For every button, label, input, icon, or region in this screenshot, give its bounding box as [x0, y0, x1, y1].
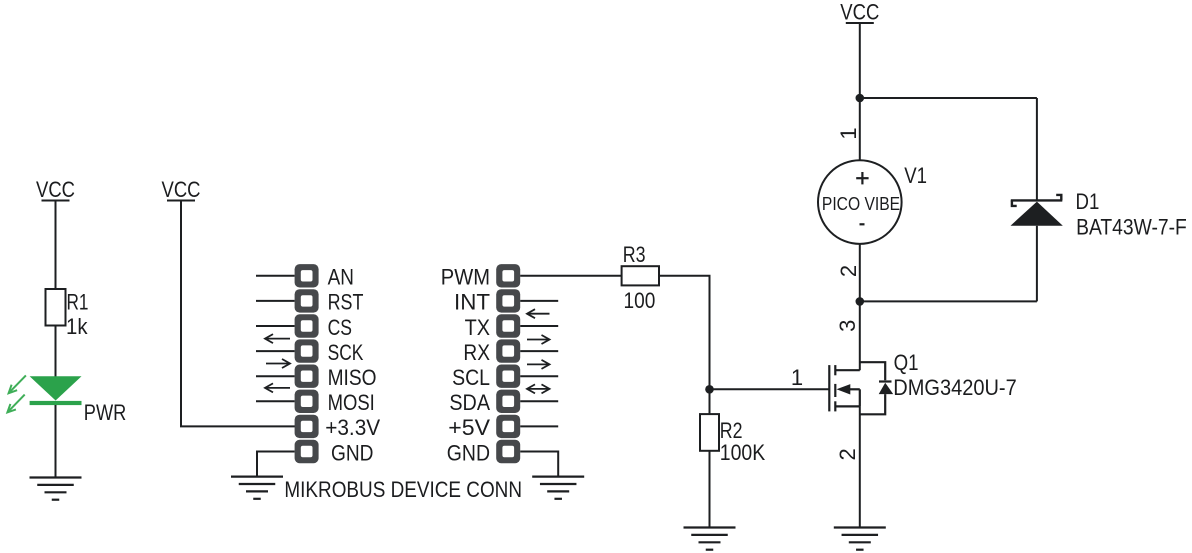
junction gate node	[705, 385, 714, 394]
connector pin 7 (+3.3V) left header	[295, 415, 319, 438]
svg-text:R3: R3	[623, 242, 646, 267]
connector pin 6 (SDA) right header	[496, 390, 520, 413]
svg-text:V1: V1	[904, 163, 927, 188]
svg-text:CS: CS	[328, 315, 352, 340]
svg-text:PWM: PWM	[441, 265, 490, 290]
svg-text:2: 2	[836, 265, 861, 277]
svg-text:MIKROBUS DEVICE CONN: MIKROBUS DEVICE CONN	[284, 477, 522, 502]
svg-text:R1: R1	[67, 290, 89, 315]
wire GND pin to ground (right)	[520, 452, 558, 477]
motor V1 (PICO VIBE)	[818, 160, 902, 244]
svg-text:MISO: MISO	[328, 365, 377, 390]
svg-text:3: 3	[835, 320, 860, 332]
wire D1 bottom to node	[860, 300, 1037, 302]
connector pin 8 (GND) right header	[496, 440, 520, 463]
wire MOSI stub	[256, 400, 295, 402]
svg-text:2: 2	[835, 448, 860, 460]
LED PWR (green power indicator)	[7, 375, 81, 412]
ground (Q1 source)	[834, 528, 886, 550]
ground (LED branch)	[30, 478, 82, 500]
wire node to V1 pin 1	[859, 98, 861, 160]
svg-text:PICO VIBE: PICO VIBE	[822, 194, 900, 214]
resistor R2	[700, 414, 719, 451]
wire gate node to R2	[709, 389, 711, 414]
wire INT stub	[520, 300, 558, 302]
wire MISO stub	[256, 375, 295, 377]
wire node to D1 top	[860, 97, 1037, 99]
wire R2 to ground	[709, 451, 711, 528]
wire PWM to R3	[520, 275, 621, 277]
arrow MOSI direction (input)	[265, 383, 290, 392]
svg-text:SDA: SDA	[449, 390, 490, 415]
svg-text:1: 1	[791, 365, 803, 390]
svg-text:RX: RX	[463, 340, 490, 365]
ground (left header GND)	[231, 477, 283, 499]
svg-text:PWR: PWR	[84, 400, 127, 425]
ground (right header GND)	[532, 477, 584, 499]
svg-text:100: 100	[624, 288, 656, 313]
svg-text:100K: 100K	[720, 440, 766, 465]
svg-text:+3.3V: +3.3V	[325, 415, 380, 440]
svg-text:1k: 1k	[66, 314, 88, 339]
arrow INT direction (input)	[527, 309, 550, 318]
svg-text:TX: TX	[465, 315, 491, 340]
transistor Q1 (N-MOSFET)	[829, 362, 893, 414]
wire SDA stub	[520, 400, 558, 402]
svg-text:SCK: SCK	[328, 340, 364, 365]
wire SCK stub	[256, 350, 295, 352]
connector pin 3 (CS) left header	[295, 314, 319, 337]
wire RX stub	[520, 350, 558, 352]
connector pin 8 (GND) left header	[295, 440, 319, 463]
svg-text:GND: GND	[331, 440, 374, 465]
arrow TX direction (output)	[527, 335, 550, 344]
wire +5V stub	[520, 425, 558, 427]
svg-text:1: 1	[836, 127, 861, 139]
svg-text:VCC: VCC	[36, 177, 75, 202]
junction V1 drain node top	[856, 94, 865, 103]
wire R1 to LED	[55, 326, 57, 378]
connector pin 1 (PWM) right header	[496, 264, 520, 287]
connector pin 4 (RX) right header	[496, 339, 520, 362]
svg-text:MOSI: MOSI	[328, 390, 375, 415]
wire RST stub	[256, 300, 295, 302]
wire gate node to Q1 gate	[710, 388, 830, 390]
svg-text:SCL: SCL	[452, 365, 490, 390]
connector pin 2 (INT) right header	[496, 289, 520, 312]
svg-text:D1: D1	[1076, 189, 1100, 214]
svg-text:GND: GND	[447, 440, 490, 465]
schottky diode D1	[1011, 195, 1063, 226]
svg-text:Q1: Q1	[894, 350, 919, 375]
wire VCC to R1	[55, 201, 57, 290]
wire Q1 source to ground	[859, 406, 861, 527]
svg-text:INT: INT	[454, 290, 490, 315]
power flag VCC (motor supply)	[840, 0, 879, 25]
wire CS stub	[256, 325, 295, 327]
wire SCL stub	[520, 375, 558, 377]
svg-text:VCC: VCC	[840, 0, 879, 25]
svg-text:VCC: VCC	[162, 177, 201, 202]
arrow RX direction (output)	[527, 360, 550, 369]
power flag VCC (LED branch)	[36, 177, 75, 202]
wire node to Q1 drain	[859, 301, 861, 370]
wire V1 pin 2 to node	[859, 244, 861, 302]
svg-text:BAT43W-7-F: BAT43W-7-F	[1076, 214, 1187, 239]
power flag VCC (3.3V rail)	[162, 177, 201, 202]
wire D1 anode to node	[1036, 226, 1038, 302]
junction V1/Q1/D1 node	[856, 297, 865, 306]
connector pin 6 (MOSI) left header	[295, 390, 319, 413]
wire TX stub	[520, 325, 558, 327]
resistor R3	[622, 266, 659, 285]
connector pin 1 (AN) left header	[295, 264, 319, 287]
svg-text:DMG3420U-7: DMG3420U-7	[893, 375, 1016, 400]
resistor R1	[46, 289, 66, 326]
ground (R2)	[684, 528, 736, 550]
connector pin 7 (+5V) right header	[496, 415, 520, 438]
svg-text:+5V: +5V	[448, 415, 490, 440]
arrow SCL direction (bidirectional)	[527, 384, 550, 393]
wire VCC to +3.3V pin	[181, 201, 295, 427]
arrow MISO direction (output)	[266, 359, 290, 368]
connector pin 2 (RST) left header	[295, 289, 319, 312]
wire GND pin to ground	[257, 452, 295, 477]
wire AN stub	[256, 275, 295, 277]
connector pin 5 (MISO) left header	[295, 365, 319, 388]
connector pin 5 (SCL) right header	[496, 365, 520, 388]
wire to D1 cathode	[1036, 98, 1038, 200]
connector pin 4 (SCK) left header	[295, 339, 319, 362]
wire LED to ground	[55, 405, 57, 478]
wire VCC to node	[859, 23, 861, 98]
connector pin 3 (TX) right header	[496, 314, 520, 337]
svg-text:AN: AN	[328, 265, 354, 290]
arrow SCK direction (input)	[265, 334, 290, 343]
wire R3 to gate node	[659, 276, 710, 390]
svg-text:RST: RST	[328, 290, 364, 315]
